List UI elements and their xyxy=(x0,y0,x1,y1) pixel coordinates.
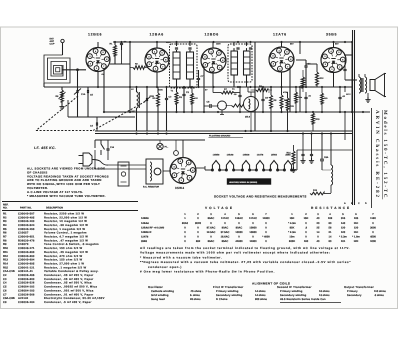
svg-text:C1A-C1B: C1A-C1B xyxy=(3,270,15,273)
svg-text:Resistor, 470 ohm 1/2 W: Resistor, 470 ohm 1/2 W xyxy=(44,255,82,258)
speaker SP1 xyxy=(370,80,375,91)
svg-text:12BE6 IF: 12BE6 IF xyxy=(141,231,152,234)
svg-text:45.5 Resistorin Series Inside: 45.5 Resistorin Series Inside Can xyxy=(280,298,326,301)
IF transformer T1 shield xyxy=(170,44,198,88)
svg-text:DESCRIPTION: DESCRIPTION xyxy=(46,207,63,210)
svg-text:R14: R14 xyxy=(3,262,8,265)
svg-text:C26084-103: C26084-103 xyxy=(18,289,35,292)
heater filament 12BA6 xyxy=(225,169,227,171)
wire T2 connections xyxy=(233,42,235,46)
rail junction dots xyxy=(114,41,116,43)
svg-text:Cathode winding: Cathode winding xyxy=(151,290,174,293)
wire filter drop xyxy=(344,112,346,140)
svg-text:180: 180 xyxy=(304,240,309,243)
grid cap C7 xyxy=(197,77,200,79)
svg-text:R4: R4 xyxy=(3,224,7,227)
resistor R11 xyxy=(286,98,289,110)
svg-text:C10057: C10057 xyxy=(18,232,29,235)
wire V4 top xyxy=(281,42,283,47)
capacitor C11 with ground xyxy=(301,153,304,155)
svg-text:4500: 4500 xyxy=(370,236,376,239)
wire V2 bottom xyxy=(156,72,158,87)
resistor R20 xyxy=(301,77,304,88)
resistor R7 xyxy=(221,91,233,94)
resistor R1 xyxy=(114,45,117,56)
svg-text:* 1.8m: * 1.8m xyxy=(352,236,360,239)
svg-text:C30040-694: C30040-694 xyxy=(18,259,35,262)
capacitor C4 xyxy=(304,65,307,67)
svg-text:14 ohms: 14 ohms xyxy=(255,290,266,293)
wire V5 plate to output transformer xyxy=(344,54,352,56)
svg-text:Models 150-TC, 152-TC: Models 150-TC, 152-TC xyxy=(382,110,388,199)
svg-text:14 ohms: 14 ohms xyxy=(255,294,266,297)
svg-text:Condenser, .00025 mf 500 V, Mi: Condenser, .00025 mf 500 V, Mica xyxy=(44,286,97,289)
svg-text:47K: 47K xyxy=(194,97,198,100)
svg-text:10m: 10m xyxy=(298,96,302,99)
svg-text:12BE6: 12BE6 xyxy=(141,217,149,220)
side rule line xyxy=(371,108,373,208)
svg-text:ANT: ANT xyxy=(50,40,55,43)
svg-text:90X0: 90X0 xyxy=(195,222,202,225)
T2 trimmer capacitors xyxy=(236,47,239,49)
resistor R17 xyxy=(295,92,298,103)
wire mid drops xyxy=(247,87,249,92)
output transformer T3 xyxy=(359,77,361,93)
svg-text:Resistor, .25 megohm 1/2 W: Resistor, .25 megohm 1/2 W xyxy=(44,251,88,254)
svg-text:R2: R2 xyxy=(3,216,7,219)
svg-text:Second IF Transformer: Second IF Transformer xyxy=(277,285,312,289)
svg-text:35L6: 35L6 xyxy=(245,116,251,119)
tube V2 12BA6 xyxy=(145,48,169,72)
svg-text:220K: 220K xyxy=(158,89,163,92)
svg-text:R12: R12 xyxy=(3,255,8,258)
svg-text:* 2.3m: * 2.3m xyxy=(339,236,347,239)
svg-text:C8A-C8B: C8A-C8B xyxy=(3,297,15,300)
wire heater right up xyxy=(296,150,298,170)
svg-text:R1: R1 xyxy=(3,212,7,215)
IF transformer T2 shield xyxy=(228,44,252,82)
capacitor C2 xyxy=(165,97,168,99)
svg-text:105: 105 xyxy=(354,217,359,220)
svg-text:A21142: A21142 xyxy=(18,297,29,300)
svg-text:Oscillator: Oscillator xyxy=(148,285,164,289)
svg-text:Condenser, .001 mf 500 V, Mica: Condenser, .001 mf 500 V, Mica xyxy=(44,289,94,292)
resistor R9 xyxy=(270,95,273,108)
svg-text:V O L T A G E: V O L T A G E xyxy=(205,206,233,210)
svg-text:D Choke: D Choke xyxy=(216,298,228,301)
heater filament 12BE6 xyxy=(211,169,213,171)
ground (antenna section) xyxy=(61,104,63,107)
svg-text:35B5: 35B5 xyxy=(141,240,148,243)
svg-text:12BA6 RF +4-0.2M0: 12BA6 RF +4-0.2M0 xyxy=(141,226,165,229)
wire socket top xyxy=(182,140,184,157)
svg-text:**Degrees measured with a vacu: **Degrees measured with a vacuum tube vo… xyxy=(140,260,351,264)
svg-text:41800: 41800 xyxy=(235,240,243,243)
svg-text:All readings are taken from th: All readings are taken from the socket t… xyxy=(140,246,350,250)
svg-text:C2: C2 xyxy=(3,274,7,277)
oscillator coil L2 xyxy=(137,92,139,108)
wire heater chain left xyxy=(204,166,206,170)
ext antenna terminal xyxy=(61,39,64,42)
svg-text:12.5AC: 12.5AC xyxy=(207,231,216,234)
wire V3 bottom xyxy=(212,71,214,87)
svg-text:120: 120 xyxy=(354,226,359,229)
svg-text:470K: 470K xyxy=(283,91,288,94)
tube V4 12AT6 xyxy=(269,47,294,72)
svg-text:C6: C6 xyxy=(3,289,7,292)
svg-text:12BA6: 12BA6 xyxy=(227,154,235,157)
svg-text:R9: R9 xyxy=(3,243,7,246)
gang linkage dashed horizontal xyxy=(36,130,93,132)
wire stub top C6 xyxy=(121,50,123,56)
svg-text:15K: 15K xyxy=(290,217,295,220)
grid bus junction dots xyxy=(97,86,99,88)
wire V5 bottom xyxy=(333,73,335,88)
wire left sub-bus xyxy=(68,116,135,118)
wire B- bus lower xyxy=(95,133,352,135)
capacitor C15 xyxy=(238,94,241,96)
wire lower right rail xyxy=(297,149,352,151)
svg-text:SOCKET VOLTAGE AND RESISTAN: SOCKET VOLTAGE AND RESISTANCE MEASUREMEN… xyxy=(214,195,307,199)
svg-text:Resistor, 10 megohm 1/2 W: Resistor, 10 megohm 1/2 W xyxy=(44,220,87,223)
svg-text:C8A: C8A xyxy=(324,156,329,159)
svg-text:Resistor, 4.7 megohm 1/2 W: Resistor, 4.7 megohm 1/2 W xyxy=(44,236,88,239)
underline resistor-in-can xyxy=(280,302,341,304)
svg-text:100V: 100V xyxy=(216,43,221,46)
svg-text:ARVIN Chassis RE-282: ARVIN Chassis RE-282 xyxy=(374,110,380,199)
svg-text:692: 692 xyxy=(196,240,201,243)
chassis border double line xyxy=(352,30,354,205)
svg-text:315: 315 xyxy=(341,217,346,220)
svg-text:C9: C9 xyxy=(3,301,7,304)
svg-text:Resistor, 27,000 ohm 1 W: Resistor, 27,000 ohm 1 W xyxy=(44,262,84,265)
heater filament 35B5 xyxy=(283,169,285,171)
svg-text:12AT6: 12AT6 xyxy=(141,236,149,239)
svg-text:110 ohms: 110 ohms xyxy=(374,290,386,293)
svg-text:A35141-41: A35141-41 xyxy=(18,270,33,273)
wire gang drop xyxy=(77,70,79,87)
svg-text:10000: 10000 xyxy=(235,231,243,234)
svg-text:B26030-478: B26030-478 xyxy=(18,239,35,242)
gang linkage dashed to C1B xyxy=(93,100,148,131)
wire lower rail xyxy=(95,139,205,141)
wire coupling xyxy=(306,63,317,65)
svg-text:Primary winding: Primary winding xyxy=(216,290,239,293)
svg-text:Resistor, 22,000 ohm 1/2 W: Resistor, 22,000 ohm 1/2 W xyxy=(44,216,87,219)
svg-text:C30041-121: C30041-121 xyxy=(18,266,35,269)
svg-text:12AT6: 12AT6 xyxy=(273,33,287,37)
svg-text:1180: 1180 xyxy=(370,217,376,220)
svg-text:PART NO.: PART NO. xyxy=(20,207,32,210)
svg-text:Grid winding: Grid winding xyxy=(151,294,169,297)
svg-text:* 4.3m: * 4.3m xyxy=(288,222,296,225)
svg-text:120: 120 xyxy=(341,231,346,234)
svg-text:* 4800: * 4800 xyxy=(262,236,270,239)
tube V5 35B5 xyxy=(321,48,346,73)
avc bus junction dots xyxy=(103,111,105,113)
svg-text:18.6AC: 18.6AC xyxy=(221,236,230,239)
svg-text:37.5AC: 37.5AC xyxy=(221,231,230,234)
svg-text:P.L.: P.L. xyxy=(165,146,169,149)
svg-text:# One meg lower resistance wit: # One meg lower resistance with Phono-Ra… xyxy=(140,270,275,274)
wire output rail right xyxy=(345,79,357,81)
svg-text:HEATERS WIRED IN SERIES: HEATERS WIRED IN SERIES xyxy=(229,181,258,184)
svg-text:35B5: 35B5 xyxy=(326,33,337,37)
svg-text:Secondary: Secondary xyxy=(347,294,362,297)
svg-text:condenser open.): condenser open.) xyxy=(148,265,182,269)
svg-text:12BE6: 12BE6 xyxy=(88,33,102,37)
interlock receptacle xyxy=(118,162,129,186)
svg-text:C1A: C1A xyxy=(81,93,86,96)
svg-text:C30040-507: C30040-507 xyxy=(18,212,35,215)
T1 trimmer capacitors xyxy=(175,47,178,49)
svg-text:.3 ohms: .3 ohms xyxy=(374,294,384,297)
svg-text:C30040-495: C30040-495 xyxy=(18,216,35,219)
svg-text:C30040-651: C30040-651 xyxy=(18,236,35,239)
wire antenna lead xyxy=(62,43,64,55)
svg-text:28 ohms: 28 ohms xyxy=(190,298,201,301)
svg-text:R8: R8 xyxy=(3,239,7,242)
svg-text:600K: 600K xyxy=(289,240,295,243)
heater filament 35W4 xyxy=(269,169,271,171)
svg-text:Tone Control & Switch, .5 mego: Tone Control & Switch, .5 megohm xyxy=(44,243,99,246)
capacitor C13 xyxy=(95,122,97,125)
svg-text:C30040-524: C30040-524 xyxy=(18,224,35,227)
node loop-grid junction xyxy=(77,69,79,71)
svg-text:Resistor, 1 megohm 1/2 W: Resistor, 1 megohm 1/2 W xyxy=(44,228,85,231)
heater filament 12BD6 xyxy=(241,169,243,171)
resistor R18 xyxy=(321,93,324,104)
wire det drop xyxy=(254,42,256,131)
parts list top rule xyxy=(2,201,138,203)
svg-text:35W4: 35W4 xyxy=(175,186,184,190)
electrolytic C8A xyxy=(320,158,324,160)
svg-text:90AC: 90AC xyxy=(236,226,243,229)
AC plug P1 xyxy=(83,153,92,166)
svg-text:Resistor, 2200 ohm 1/2 W: Resistor, 2200 ohm 1/2 W xyxy=(44,212,84,215)
svg-text:C33036-526: C33036-526 xyxy=(18,282,35,285)
resistor R15 xyxy=(312,113,315,124)
resistor R16 xyxy=(191,93,194,104)
resistor R8 xyxy=(256,88,268,91)
svg-text:EXT: EXT xyxy=(50,38,55,41)
svg-text:18 ohms: 18 ohms xyxy=(319,290,330,293)
svg-text:R6: R6 xyxy=(3,232,7,235)
wire bus stub right xyxy=(344,87,346,92)
capacitor C6 xyxy=(120,42,123,44)
capacitor C16 xyxy=(304,96,307,98)
svg-text:C33036-568: C33036-568 xyxy=(18,293,35,296)
svg-text:Output Transformer: Output Transformer xyxy=(344,285,375,289)
wire V1 down xyxy=(103,69,105,112)
svg-text:Voltage measurements made with: Voltage measurements made with 1000 ohm … xyxy=(140,251,330,255)
svg-text:Volume Control, 1 megohm: Volume Control, 1 megohm xyxy=(44,232,87,235)
svg-text:80A0: 80A0 xyxy=(182,222,189,225)
capacitor C5 xyxy=(86,90,88,93)
svg-text:OSC: OSC xyxy=(131,110,136,113)
svg-text:C7: C7 xyxy=(3,293,7,296)
wire V1 cathode drop xyxy=(97,72,99,88)
svg-text:87.6AC: 87.6AC xyxy=(207,226,216,229)
wire line cord xyxy=(94,140,96,148)
svg-text:C26084-102: C26084-102 xyxy=(18,286,35,289)
wire V5 top xyxy=(333,42,335,48)
tone control J1 xyxy=(218,101,227,110)
T1 primary winding xyxy=(173,52,180,79)
ground (heater) xyxy=(293,167,295,170)
svg-text:82K: 82K xyxy=(290,226,295,229)
svg-text:C30049-171: C30049-171 xyxy=(18,247,35,250)
svg-text:35W4: 35W4 xyxy=(271,154,277,157)
resistor R12 xyxy=(316,72,319,85)
tube V6 35W4 xyxy=(170,158,196,184)
svg-text:Primary winding: Primary winding xyxy=(280,290,303,293)
svg-text:117AC: 117AC xyxy=(249,217,257,220)
svg-text:11K: 11K xyxy=(354,222,359,225)
wire loop to grid xyxy=(62,69,86,71)
wire V3 top xyxy=(212,42,214,48)
svg-text:10m: 10m xyxy=(289,236,295,239)
svg-text:C30040-690: C30040-690 xyxy=(18,251,35,254)
svg-text:Resistor, .47 megohm 1/2 W: Resistor, .47 megohm 1/2 W xyxy=(44,239,88,242)
svg-text:86AC: 86AC xyxy=(208,217,215,220)
capacitor C3 xyxy=(182,93,185,95)
svg-text:Resistor, 150 ohm 1/2 W: Resistor, 150 ohm 1/2 W xyxy=(44,247,82,250)
svg-text:C30040-150: C30040-150 xyxy=(18,228,35,231)
svg-text:Electrolytic Condenser, 50-30: Electrolytic Condenser, 50-30 mf,150V xyxy=(44,297,105,300)
svg-text:101: 101 xyxy=(341,240,346,243)
wire grid bus xyxy=(44,86,352,88)
svg-text:Secondary winding: Secondary winding xyxy=(216,294,243,297)
svg-text:C33036-495: C33036-495 xyxy=(18,274,35,277)
wire V1 plate to rail xyxy=(97,42,99,48)
svg-text:R13: R13 xyxy=(3,259,8,262)
wire V4 bottom xyxy=(281,72,283,87)
svg-text:Condenser, .05 mf 200 V, Mica: Condenser, .05 mf 200 V, Mica xyxy=(44,282,92,285)
resistor R14 xyxy=(292,151,295,164)
resistor R3 xyxy=(175,92,178,104)
svg-text:6. ohms: 6. ohms xyxy=(190,294,200,297)
wire heater chain xyxy=(205,169,212,171)
wire power bus xyxy=(108,164,146,166)
svg-text:C30040-695: C30040-695 xyxy=(18,262,35,265)
svg-text:C30040-103: C30040-103 xyxy=(18,220,35,223)
svg-text:11800: 11800 xyxy=(249,240,257,243)
svg-text:B.C. RESISTOR: B.C. RESISTOR xyxy=(143,186,160,189)
svg-text:86AC: 86AC xyxy=(208,240,215,243)
capacitor C9 xyxy=(261,98,264,100)
svg-text:12AT6: 12AT6 xyxy=(257,154,264,157)
svg-text:C5: C5 xyxy=(3,286,7,289)
svg-text:11800: 11800 xyxy=(262,217,270,220)
wire B+ top rail xyxy=(113,41,352,43)
svg-text:3000: 3000 xyxy=(370,226,376,229)
svg-text:85AC: 85AC xyxy=(222,240,229,243)
svg-text:R3: R3 xyxy=(3,220,7,223)
svg-text:90AC: 90AC xyxy=(222,226,229,229)
wire V4 right drop xyxy=(289,66,291,112)
svg-text:Primary: Primary xyxy=(347,290,358,293)
resistor R13 xyxy=(310,192,324,195)
svg-text:11K: 11K xyxy=(354,231,359,234)
svg-text:R15: R15 xyxy=(3,266,8,269)
wire AVC bus xyxy=(104,111,370,113)
svg-text:12BD6: 12BD6 xyxy=(205,33,219,37)
svg-text:12K: 12K xyxy=(354,240,359,243)
svg-text:R10: R10 xyxy=(3,247,8,250)
svg-text:Condenser, .05 mf 200 V, Paper: Condenser, .05 mf 200 V, Paper xyxy=(44,274,94,277)
loop antenna L1 xyxy=(44,55,70,83)
capacitor C17 xyxy=(338,96,341,98)
svg-text:Resistor, 150 ohm 1/2 W: Resistor, 150 ohm 1/2 W xyxy=(44,259,82,262)
svg-text:15K: 15K xyxy=(304,217,309,220)
heater note black bar xyxy=(227,179,271,185)
svg-text:R7: R7 xyxy=(3,236,7,239)
svg-text:13 ohms: 13 ohms xyxy=(319,294,330,297)
wire loop bottom drop xyxy=(43,83,45,87)
svg-text:FLOATING GROUND: FLOATING GROUND xyxy=(209,135,231,138)
capacitor C12 with ground xyxy=(310,153,313,155)
svg-text:First IF Transformer: First IF Transformer xyxy=(213,285,244,289)
gang linkage dashed xyxy=(36,96,78,131)
svg-text:Gang lead: Gang lead xyxy=(151,298,165,301)
parts list header rule xyxy=(2,210,138,212)
svg-text:C10070: C10070 xyxy=(18,243,29,246)
svg-text:Condenser, .5 mf 400 V, Paper: Condenser, .5 mf 400 V, Paper xyxy=(44,301,92,304)
svg-text:12BA6: 12BA6 xyxy=(141,222,149,225)
tube V3 12BD6 xyxy=(201,48,226,73)
svg-text:100V: 100V xyxy=(166,41,171,44)
svg-text:I.F. 455 KC.: I.F. 455 KC. xyxy=(34,146,56,150)
resistor R10 xyxy=(280,95,283,108)
T2 secondary winding xyxy=(244,51,251,75)
wire ballast to socket xyxy=(163,170,171,172)
ground (speaker) xyxy=(367,97,369,100)
pilot lamp PL1 xyxy=(157,143,163,149)
capacitor C1A (tuning gang) xyxy=(76,90,78,93)
svg-text:120: 120 xyxy=(341,226,346,229)
svg-text:R5: R5 xyxy=(3,228,7,231)
b-minus junction dots xyxy=(136,133,138,135)
wire osc section xyxy=(110,63,130,65)
svg-text:Condenser, .01 mf 400 V, Paper: Condenser, .01 mf 400 V, Paper xyxy=(44,293,94,296)
svg-text:R11: R11 xyxy=(3,251,8,254)
svg-text:C30040-693: C30040-693 xyxy=(18,255,35,258)
svg-text:C33036-603: C33036-603 xyxy=(18,278,35,281)
wire T1 connections xyxy=(176,42,178,46)
svg-text:Variable Condenser & Pulley as: Variable Condenser & Pulley assy. xyxy=(44,270,99,273)
svg-text:800 ohms: 800 ohms xyxy=(255,298,268,301)
resistor R19 xyxy=(133,66,145,70)
resistor R6 (with arrow) xyxy=(61,90,64,102)
T2 primary winding xyxy=(231,51,238,75)
svg-text:.75 ohms: .75 ohms xyxy=(190,290,202,293)
capacitor C1B (tuning gang) xyxy=(145,98,147,101)
oscillator coil T4 (detector coil) xyxy=(244,97,259,112)
svg-text:* 2.3m: * 2.3m xyxy=(288,231,296,234)
wire V2 top xyxy=(156,42,158,48)
wire V3 side drop xyxy=(203,67,205,112)
svg-text:C3: C3 xyxy=(3,278,7,281)
svg-text:117AC: 117AC xyxy=(221,217,229,220)
svg-text:1000: 1000 xyxy=(370,240,376,243)
wire B- bus upper xyxy=(95,130,352,132)
heater filament 12AT6 xyxy=(255,169,257,171)
tube V1 12BE6 xyxy=(86,48,110,72)
svg-text:117V: 117V xyxy=(346,93,351,96)
svg-text:R E S I S T A N C E: R E S I S T A N C E xyxy=(311,206,350,210)
svg-text:Resistor, .1 megohm 1/2 W: Resistor, .1 megohm 1/2 W xyxy=(44,266,86,269)
